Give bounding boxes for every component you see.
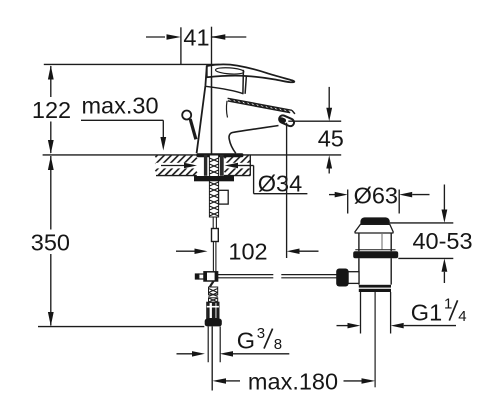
handle neck post bbox=[243, 70, 247, 94]
svg-text:max.180: max.180 bbox=[248, 368, 338, 394]
hose threaded section bbox=[209, 287, 218, 302]
deck bottom line bbox=[156, 155, 250, 176]
hose tails bbox=[208, 326, 220, 362]
dimension 350 line bbox=[48, 156, 54, 326]
dimension G3/8 arrows bbox=[177, 351, 290, 357]
side fitting on shank bbox=[219, 190, 229, 204]
spout underside curve to base bbox=[229, 126, 278, 154]
svg-text:Ø34: Ø34 bbox=[258, 170, 302, 196]
cartridge cap line bbox=[206, 86, 244, 94]
bottom reference line (hose end datum) bbox=[38, 326, 204, 328]
svg-text:4: 4 bbox=[458, 308, 466, 325]
dimension max.180 bbox=[212, 378, 375, 384]
faucet base band bbox=[196, 153, 243, 157]
svg-text:Ø63: Ø63 bbox=[354, 182, 398, 208]
deck hatching left bbox=[155, 155, 197, 175]
dimension 45 bbox=[288, 87, 341, 174]
drain lower body tube bbox=[359, 258, 391, 284]
svg-text:350: 350 bbox=[31, 230, 70, 256]
spout tip face bbox=[292, 110, 295, 114]
dimension 122 line bbox=[48, 65, 54, 153]
svg-text:G: G bbox=[237, 327, 255, 353]
threaded rod through deck bbox=[209, 155, 218, 217]
svg-text:3: 3 bbox=[257, 325, 265, 342]
dimension G1 1/4 bbox=[337, 323, 457, 329]
handle cap ellipse bbox=[215, 67, 244, 75]
faucet body back edge bbox=[197, 66, 207, 153]
drain flange cap bbox=[360, 217, 389, 224]
shank tube in deck bbox=[204, 155, 224, 176]
dimension Ø63 bbox=[329, 190, 430, 214]
horizontal pop-up rod right segment bbox=[281, 275, 337, 278]
svg-text:40-53: 40-53 bbox=[412, 228, 472, 254]
pull-rod knob bbox=[182, 111, 191, 120]
drain coupling rings bbox=[359, 285, 391, 292]
hose nut bbox=[207, 302, 219, 318]
pull rod lower section bbox=[213, 242, 216, 273]
faucet handle lever bbox=[207, 65, 295, 83]
drain centerline bbox=[374, 292, 376, 387]
drain tailpipe bbox=[361, 292, 391, 334]
aerator bbox=[278, 114, 295, 127]
drain gasket bbox=[353, 251, 398, 258]
dimension 102 bbox=[176, 249, 319, 255]
top reference line (spout height datum) bbox=[44, 63, 220, 65]
svg-text:45: 45 bbox=[318, 125, 344, 151]
horizontal pop-up rod left segment bbox=[218, 275, 274, 278]
svg-text:102: 102 bbox=[228, 239, 267, 265]
deck top reference line bbox=[43, 154, 342, 156]
spout top hatching bbox=[230, 99, 289, 112]
drain side port cylinder bbox=[348, 272, 359, 284]
mounting washer bbox=[194, 176, 234, 181]
deck hatch clearing for dimension line bbox=[155, 163, 250, 169]
svg-text:max.30: max.30 bbox=[81, 93, 158, 119]
pop-up rod junction block bbox=[195, 272, 218, 281]
dimension 41 bbox=[146, 27, 246, 64]
small cylinder on rod bbox=[212, 229, 219, 242]
dimension 40-53 bbox=[390, 185, 454, 284]
faucet lower centerline bbox=[211, 326, 213, 390]
spout tip extension line bbox=[286, 123, 288, 258]
max.30 leader bbox=[81, 120, 166, 150]
G3/8 end cap bbox=[205, 319, 222, 327]
deck hatching right bbox=[225, 155, 251, 175]
svg-text:41: 41 bbox=[183, 25, 209, 51]
label G1 1/4 bbox=[411, 296, 467, 326]
centerline over faucet bbox=[211, 64, 213, 154]
svg-text:122: 122 bbox=[32, 97, 71, 123]
rod hook below junction bbox=[209, 281, 213, 289]
dimension Ø34 leader and arrows bbox=[161, 163, 307, 194]
svg-text:8: 8 bbox=[274, 336, 282, 353]
svg-text:G1: G1 bbox=[411, 300, 442, 326]
drain rod knob bbox=[336, 269, 348, 287]
pull-rod upper rod bbox=[190, 119, 196, 139]
label G3/8 bbox=[237, 325, 282, 353]
svg-text:1: 1 bbox=[444, 296, 452, 313]
drain upper body tube bbox=[355, 233, 395, 251]
faucet centerline bbox=[211, 27, 213, 154]
thin rod below shank bbox=[213, 217, 216, 229]
drain flange skirt bbox=[355, 224, 393, 233]
spout left edge bbox=[226, 101, 227, 118]
spout top edge bbox=[228, 98, 292, 112]
